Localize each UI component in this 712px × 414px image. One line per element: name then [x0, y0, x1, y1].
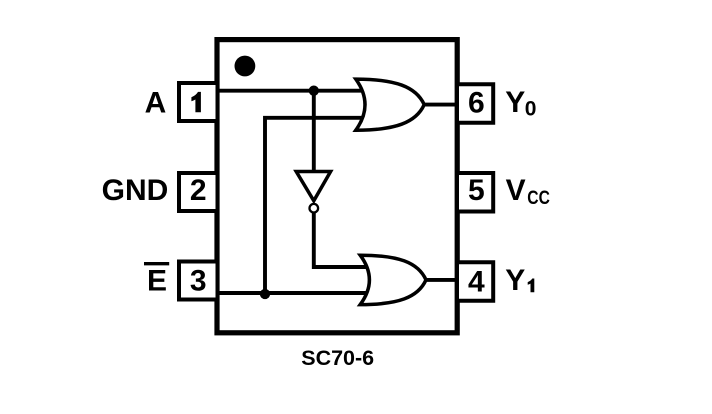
pin 1 number [191, 92, 201, 112]
OR gate G1 (output Y0) [356, 79, 424, 130]
pin 3 box [179, 262, 218, 300]
wire E-bar (pin 3 to OR gate Y1 lower input) [216, 291, 370, 295]
node junction on wire E-bar [260, 289, 270, 299]
wire E-bar branch (up and right to OR gate Y0 lower input) [265, 118, 366, 293]
pin 2 box [179, 173, 218, 211]
pin 1 indicator dot [235, 56, 256, 77]
OR gate G2 (output Y1) [360, 255, 426, 304]
svg-text:5: 5 [468, 174, 485, 207]
svg-text:V: V [506, 174, 526, 207]
svg-text:3: 3 [190, 265, 207, 298]
overline for E [144, 262, 169, 265]
svg-text:0: 0 [525, 98, 537, 121]
svg-text:SC70-6: SC70-6 [301, 346, 374, 370]
inverter output bubble [310, 204, 319, 213]
node junction on wire A [309, 86, 319, 96]
wire inverter output (down and right to OR gate Y1 top input) [314, 206, 372, 267]
inverter U2 (A to A-bar) [296, 172, 330, 201]
wire Y1 output (gate tip to pin 4) [423, 278, 457, 282]
IC package body U1 (SC70-6 outline) [217, 40, 457, 333]
svg-text:CC: CC [527, 188, 550, 209]
wire Y0 output (gate tip to pin 6) [421, 103, 457, 107]
svg-text:Y: Y [505, 264, 525, 297]
svg-text:A: A [145, 86, 167, 119]
pin 4 box [457, 262, 493, 301]
svg-text:E: E [147, 265, 167, 298]
pin 5 box [457, 173, 493, 212]
wire A (pin 1 to OR gate top input) [216, 89, 366, 93]
svg-text:2: 2 [190, 174, 207, 207]
pin 6 box [457, 84, 493, 123]
wire inverter input (node A down to inverter) [312, 89, 316, 174]
svg-text:Y: Y [505, 86, 525, 119]
svg-text:6: 6 [468, 87, 485, 120]
svg-text:GND: GND [102, 174, 169, 207]
pin 1 box [179, 83, 218, 121]
svg-text:4: 4 [468, 265, 485, 298]
